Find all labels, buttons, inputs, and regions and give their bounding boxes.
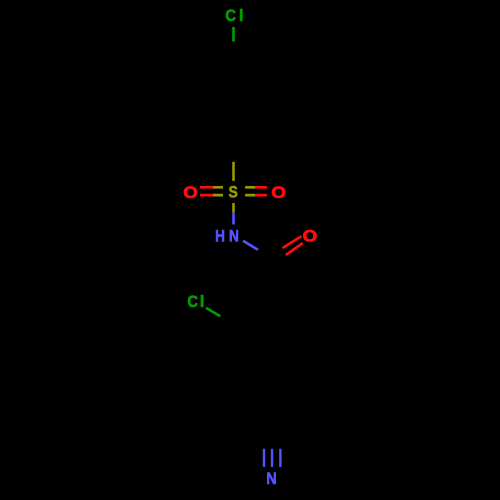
bond C4-S carbon half xyxy=(232,143,234,162)
atom label HN xyxy=(215,227,239,246)
svg-text:S: S xyxy=(229,183,238,202)
svg-text:H: H xyxy=(215,227,225,246)
S=O left double bond, oxygen halves (red) xyxy=(200,187,213,195)
S=O left double bond, sulfur halves (yellow) xyxy=(213,187,223,195)
C=O double bond oxygen halves (red) xyxy=(283,236,303,255)
atom label Cl1 xyxy=(225,6,243,25)
C=O carbon halves xyxy=(264,248,286,267)
S=O right double bond, oxygen halves (red) xyxy=(255,187,267,195)
bond S-N sulfur half (yellow) xyxy=(232,203,235,212)
bond N-C(=O) carbon half xyxy=(259,253,271,263)
svg-text:O: O xyxy=(303,226,318,245)
nitrile carbon halves xyxy=(264,431,278,449)
bond C4-S sulfur half (yellow) xyxy=(232,162,235,181)
ring 2 (2-chloro-4-cyanophenyl) xyxy=(236,304,308,387)
bond C1-Cl1 carbon half xyxy=(232,43,234,59)
nitrile triple bond nitrogen halves (blue) xyxy=(264,449,280,467)
bond ring2-C(nitrile) xyxy=(270,387,272,431)
bond S-N nitrogen half (blue) xyxy=(232,212,235,224)
bond C1-Cl1 chlorine half (green) xyxy=(232,27,235,42)
svg-text:C: C xyxy=(225,7,236,25)
atom label Cl2 xyxy=(187,292,204,311)
svg-text:l: l xyxy=(200,292,205,311)
S=O right double bond, sulfur halves (yellow) xyxy=(245,187,255,195)
svg-text:C: C xyxy=(187,293,198,311)
svg-text:N: N xyxy=(266,470,276,488)
svg-text:l: l xyxy=(239,6,244,25)
bond N-C(=O) nitrogen half (blue) xyxy=(243,241,258,250)
svg-text:O: O xyxy=(271,183,286,202)
ring 1 (4-chlorophenyl) xyxy=(197,59,270,144)
bond C-Cl2 carbon half xyxy=(221,316,236,324)
bond C-Cl2 chlorine half (green) xyxy=(206,308,220,316)
bond C(=O)-ring2 xyxy=(271,263,272,304)
invisible carbon skeleton (carbon colour = black on black background) xyxy=(197,43,308,449)
svg-text:O: O xyxy=(183,183,198,202)
svg-text:N: N xyxy=(229,227,239,246)
